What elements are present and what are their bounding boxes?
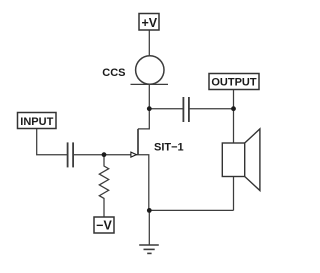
svg-text:+V: +V [141,16,157,30]
svg-text:−V: −V [96,219,112,233]
svg-text:INPUT: INPUT [20,116,53,128]
svg-text:CCS: CCS [102,67,125,79]
svg-text:OUTPUT: OUTPUT [211,77,257,89]
svg-text:SIT−1: SIT−1 [154,142,184,154]
